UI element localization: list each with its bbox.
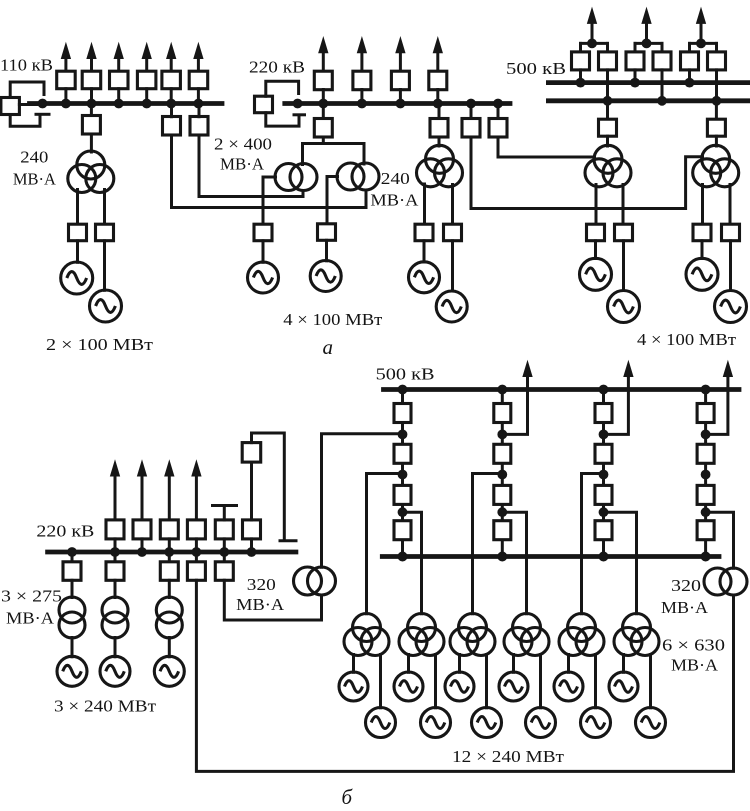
node chain 1 n3: [398, 507, 408, 517]
breaker tie 220-500 no1: [462, 119, 480, 138]
breaker 500 bay 1 upper-bus side: [572, 52, 590, 70]
svg-text:МВ·А: МВ·А: [370, 191, 419, 210]
breaker AT 220b-side: [215, 562, 233, 581]
generator G1: [61, 262, 93, 294]
breaker 500 bay 1 lower-bus side: [599, 52, 617, 70]
wire 220 bus to tie breaker no2: [497, 104, 500, 119]
wire transformer to generator: [114, 638, 117, 657]
breaker T2 220-side: [430, 119, 448, 138]
transformer (two-winding 275 MVA): [156, 597, 182, 638]
breaker T4 500-side: [707, 119, 725, 136]
wire lower bus to breaker T3: [606, 101, 609, 120]
wire 220 bay 4 to bus: [436, 90, 439, 104]
generator G-b5b: [581, 708, 611, 738]
node upper bus bay 2: [630, 78, 640, 88]
wire T-b5 to lower generator: [594, 655, 597, 708]
svg-text:6 × 630: 6 × 630: [662, 636, 725, 655]
breaker generator T4a: [693, 224, 711, 241]
outgoing line arrow 500b-1: [523, 362, 532, 377]
svg-text:110 кВ: 110 кВ: [0, 56, 53, 75]
generator G-b3a: [445, 672, 474, 701]
wire AT header right: [323, 142, 364, 145]
wire breaker to generator G3: [262, 241, 265, 262]
breaker G3: [254, 224, 272, 241]
wire 500 bay 1 split bar: [581, 42, 608, 45]
outgoing line arrow 500b-2: [624, 362, 633, 377]
wire right breaker to lower bus bay 2: [661, 70, 664, 101]
generator G-b1b: [366, 708, 396, 738]
breaker 500 bay 3 upper-bus side: [681, 52, 699, 70]
autotransformer 320 MVA right: [704, 568, 747, 595]
wire T3 left winding to breaker: [595, 185, 598, 225]
wire tap A3 to line arrow: [604, 371, 629, 434]
wire tap C3 to T-b6: [604, 512, 637, 614]
node 220b bus: [137, 547, 147, 557]
svg-text:МВ·А: МВ·А: [6, 609, 55, 628]
wire 220 bypass loop bottom: [266, 113, 299, 126]
wire bay 6 to 110 bus: [197, 89, 200, 104]
wire bypass loop over: [252, 433, 285, 539]
wire T3 right winding to breaker: [622, 185, 625, 225]
220 bypass disconnector bar: [294, 113, 305, 116]
breaker 110kV bay 1: [57, 71, 75, 89]
wire 220 bus to breaker T2: [438, 104, 441, 119]
breaker G5: [415, 224, 433, 241]
svg-text:4 × 100 МВт: 4 × 100 МВт: [637, 330, 737, 349]
breaker tie long route: [187, 562, 205, 581]
bypass breaker on 220 kV bus: [255, 96, 273, 113]
wire breaker to generator G4: [325, 240, 328, 260]
svg-text:б: б: [342, 785, 354, 809]
wire 110 bus to breaker T1: [90, 104, 93, 116]
node 220b bus: [110, 547, 120, 557]
node 220b bus: [192, 547, 202, 557]
bus 500 kV upper: [548, 80, 750, 85]
generator G4: [310, 261, 341, 292]
wire 500 bay 2 split bar: [635, 42, 662, 45]
wire T-b6 to upper generator: [622, 655, 625, 673]
breaker generator T3a: [587, 224, 605, 241]
wire T1 left winding to breaker G1: [76, 190, 79, 225]
breaker above 220b bus: [106, 520, 124, 539]
wire bay 2 to 110 bus: [90, 89, 93, 104]
wire long tie route bottom: [196, 580, 733, 771]
wire 220b bus to tie breaker: [195, 552, 198, 561]
breaker chain 3.4: [595, 521, 612, 540]
wire T-b4 to lower generator: [539, 655, 542, 708]
svg-text:220 кВ: 220 кВ: [36, 522, 94, 541]
wire 220b bus to breaker: [71, 552, 74, 561]
node chain 1 bottom bus: [398, 552, 408, 562]
wire split to right breaker bay 2: [661, 43, 664, 52]
breaker above 220b bus: [215, 520, 233, 539]
node 110 bus bay 2: [87, 99, 97, 109]
wire 220 bay 1 to bus: [322, 90, 325, 104]
breaker 500 bay 2 lower-bus side: [653, 52, 671, 70]
node upper bus bay 3: [685, 78, 695, 88]
bypass disconnector bar: [36, 113, 49, 116]
breaker chain 4.3: [697, 485, 714, 504]
wire left breaker to upper bus bay 1: [579, 70, 582, 83]
generator G-b4b: [526, 708, 556, 738]
node upper bus bay 1: [576, 78, 586, 88]
wire T2 right winding to breaker G6: [451, 185, 454, 225]
breaker G2: [96, 224, 114, 241]
wire bay 5 to 110 bus: [170, 89, 173, 104]
generator G-b2b: [421, 708, 451, 738]
node chain 3 n2: [599, 470, 609, 480]
node bypass 220: [293, 99, 303, 109]
wire header to AT2: [363, 144, 366, 165]
outgoing line arrow 110kV bay 4: [142, 44, 151, 72]
generator 240 MW: [57, 656, 87, 686]
node chain 2 bottom bus: [497, 552, 507, 562]
transformer T-b5 (three-winding 630 MVA): [559, 614, 604, 656]
autotransformer AT2: [337, 163, 379, 190]
wire T-b5 to upper generator: [567, 655, 570, 673]
wire split to left breaker bay 3: [688, 43, 691, 52]
wire breaker to transformer T2: [438, 137, 441, 146]
wire breaker to 220b bus: [141, 539, 144, 552]
svg-text:МВ·А: МВ·А: [671, 656, 719, 675]
node chain 2 n3: [497, 507, 507, 517]
svg-text:2 × 400: 2 × 400: [214, 135, 272, 154]
wire breaker to generator G5: [423, 241, 426, 262]
generator G2: [90, 290, 122, 322]
wire bay 1 to 110 bus: [64, 89, 67, 104]
svg-text:а: а: [323, 335, 334, 359]
outgoing line arrow 110kV bay 2: [87, 44, 96, 72]
wire tie no1 to T4 (long route): [471, 137, 703, 209]
breaker chain 3.1: [595, 404, 612, 423]
wire T-b4 to upper generator: [512, 655, 515, 673]
wire split to left breaker bay 2: [634, 43, 637, 52]
wire 220 bypass loop top: [266, 81, 299, 96]
wire left breaker to upper bus bay 3: [688, 70, 691, 83]
breaker 220kV bay 4: [429, 71, 447, 90]
breaker chain 4.4: [697, 521, 714, 540]
svg-text:МВ·А: МВ·А: [13, 170, 57, 189]
breaker above 220b bus: [243, 520, 261, 539]
transformer T3 (three-winding): [585, 145, 631, 187]
node 220 bus bay 1: [318, 99, 328, 109]
wire bay 4 to 110 bus: [145, 89, 148, 104]
wire tie no2 to T3: [498, 137, 595, 157]
wire 110 bus to tie breaker bay5: [170, 104, 173, 117]
wire T2 left winding to breaker G5: [423, 184, 426, 225]
wire T-b3 to upper generator: [458, 655, 461, 673]
outgoing line arrow 220b: [138, 461, 147, 520]
breaker 110kV bay 5: [162, 71, 181, 89]
generator G5: [409, 262, 440, 293]
node lower bus bay 1: [603, 96, 613, 106]
breaker 110kV bay 6: [189, 71, 208, 89]
wire breaker to 220b bus: [168, 539, 171, 552]
wire 220 bus to AT breaker: [322, 104, 325, 119]
svg-text:12 × 240 МВт: 12 × 240 МВт: [452, 747, 565, 766]
breaker T1 110-side: [82, 116, 100, 135]
breaker above 220b bus: [133, 520, 151, 539]
breaker above 220b bus: [160, 520, 178, 539]
node 110 bus bay 4: [142, 99, 152, 109]
node chain 4 n2: [701, 470, 711, 480]
wire header to AT1: [301, 144, 304, 165]
outgoing line arrow 220kV bay 4: [433, 38, 442, 72]
node chain 4 n3: [701, 507, 711, 517]
breaker 110kV bay 2: [82, 71, 101, 89]
node chain 2 top bus: [497, 385, 507, 395]
breaker chain 2.1: [494, 404, 511, 423]
outgoing line arrow 110kV bay 5: [167, 44, 176, 72]
wire chain 1: [401, 390, 404, 557]
wire T-b2 to upper generator: [407, 655, 410, 673]
bypass second breaker 220b: [242, 443, 261, 463]
svg-text:3 × 275: 3 × 275: [1, 587, 62, 606]
wire bay 3 to 110 bus: [117, 89, 120, 104]
wire breaker to transformer: [71, 580, 74, 597]
wire right breaker to lower bus bay 3: [715, 70, 718, 101]
outgoing line arrow 110kV bay 3: [114, 44, 123, 72]
wire tap C4 to AT right: [706, 512, 734, 568]
node 110 bus bay 5: [166, 99, 176, 109]
outgoing line arrow 220b: [192, 461, 201, 520]
transformer T-b2 (three-winding 630 MVA): [399, 614, 444, 656]
outgoing line arrow 500kV bay 3: [697, 8, 706, 43]
svg-text:4 × 100 МВт: 4 × 100 МВт: [283, 310, 383, 329]
node 220 bus bay 3: [396, 99, 406, 109]
outgoing line arrow 220kV bay 2: [357, 38, 366, 72]
generator G-b3b: [472, 708, 502, 738]
outgoing line arrow 110kV bay 6: [194, 44, 203, 72]
wire breaker to generator T3b: [622, 241, 625, 291]
wire breaker to generator G1: [76, 241, 79, 262]
wire right breaker to lower bus bay 1: [606, 70, 609, 101]
wire left breaker to upper bus bay 2: [634, 70, 637, 83]
transformer T-b3 (three-winding 630 MVA): [450, 614, 495, 656]
node 110 bus bay 6: [194, 99, 204, 109]
breaker generator T3b: [615, 224, 633, 241]
wire T4 left winding to breaker: [701, 185, 704, 225]
node chain 4 top bus: [701, 385, 711, 395]
wire breaker to 220b bus: [114, 539, 117, 552]
wire tap B2 to T-b3: [473, 474, 503, 614]
generator G6: [436, 291, 467, 322]
wire bar to breaker: [223, 506, 226, 521]
svg-text:500 кВ: 500 кВ: [376, 365, 435, 384]
wire chain 4: [704, 390, 707, 557]
wire tap C1 to T-b2: [403, 512, 422, 614]
transformer (two-winding 275 MVA): [102, 597, 128, 638]
node 220 bus bay 2: [357, 99, 367, 109]
breaker tie 220-500 no2: [489, 119, 507, 138]
svg-text:320: 320: [671, 576, 701, 595]
wire AT2 tap to breaker G4: [327, 177, 338, 225]
autotransformer 320 MVA left: [294, 567, 336, 595]
generator T3b: [608, 291, 640, 323]
transformer T-b4 (three-winding 630 MVA): [504, 614, 549, 656]
breaker 110kV bay 4: [137, 71, 156, 89]
generator T3a: [580, 258, 612, 290]
wire bypass breaker to bus: [19, 103, 42, 106]
wire transformer to generator: [71, 638, 74, 657]
wire breaker to transformer T3: [606, 136, 609, 146]
node 500 bay 1 split: [587, 39, 597, 49]
bus 500 kV-1 (scheme b): [384, 387, 740, 392]
svg-text:320: 320: [247, 575, 276, 594]
breaker chain 1.1: [394, 404, 411, 423]
node 220 tie no2: [493, 99, 503, 109]
breaker 220kV bay 3: [391, 71, 409, 90]
wire chain 3: [602, 390, 605, 557]
wire 110 bus to tie breaker bay6: [198, 104, 201, 117]
breaker generator T4b: [722, 224, 740, 241]
wire tap A2 to line arrow: [502, 371, 527, 434]
generator G3: [248, 262, 279, 293]
svg-text:220 кВ: 220 кВ: [249, 58, 305, 77]
node chain 3 n3: [599, 507, 609, 517]
wire 220b bus to breaker: [168, 552, 171, 561]
node chain 4 n1: [701, 430, 711, 440]
node chain 1 n2: [398, 470, 408, 480]
generator T4a: [686, 258, 718, 290]
outgoing line arrow 500kV bay 2: [642, 8, 651, 43]
node 110 bus bay 1: [61, 99, 71, 109]
generator G-b5a: [554, 672, 583, 701]
svg-text:МВ·А: МВ·А: [236, 595, 285, 614]
breaker chain 2.3: [494, 485, 511, 504]
wire lower bus to breaker T4: [715, 101, 718, 120]
wire breaker to transformer T1: [90, 134, 93, 152]
node 220 bus bay 4: [433, 99, 443, 109]
generator G-b4a: [499, 672, 528, 701]
breaker AT tie 110 bay6: [190, 117, 208, 136]
bus 110 kV: [30, 101, 223, 106]
transformer T2 (three-winding): [417, 145, 463, 187]
breaker above 220b bus: [187, 520, 205, 539]
outgoing line arrow 220b: [165, 461, 174, 520]
outgoing line arrow 220kV bay 3: [396, 38, 405, 72]
generator G-b6a: [609, 672, 638, 701]
node 220b bus: [247, 547, 257, 557]
wire split to right breaker bay 1: [606, 43, 609, 52]
outgoing line arrow 500b-3: [723, 362, 732, 377]
breaker G1: [69, 224, 87, 241]
node chain 1 n1: [398, 430, 408, 440]
wire T-b1 to upper generator: [352, 655, 355, 673]
generator G-b1a: [339, 672, 368, 701]
wire breaker to generator G2: [103, 241, 106, 290]
node 220b bus: [164, 547, 174, 557]
node chain 3 n1: [599, 430, 609, 440]
wire split to right breaker bay 3: [715, 43, 718, 52]
svg-text:МВ·А: МВ·А: [220, 155, 265, 174]
breaker 220kV bay 2: [353, 71, 371, 90]
node chain 1 top bus: [398, 385, 408, 395]
bus 220 kV (scheme b): [48, 550, 296, 555]
generator T4b: [715, 291, 747, 323]
breaker G4: [318, 224, 336, 241]
wire transformer to generator: [168, 638, 171, 657]
node lower bus bay 2: [657, 96, 667, 106]
wire T4 right winding to breaker: [729, 185, 732, 225]
wire tap B1 to T-b1: [367, 474, 403, 614]
transformer T1 (three-winding 240 MVA): [68, 151, 114, 193]
breaker 500 bay 3 lower-bus side: [708, 52, 726, 70]
transformer (two-winding 275 MVA): [59, 597, 85, 638]
wire AT1 tap to breaker G3: [263, 177, 276, 225]
wire breaker to 220b bus: [250, 539, 253, 552]
node 220b bus: [219, 547, 229, 557]
wire T1 right winding to breaker G2: [103, 190, 106, 225]
wire T-b6 to lower generator: [649, 655, 652, 708]
svg-text:МВ·А: МВ·А: [661, 598, 709, 617]
wire 220b bus to breaker: [114, 552, 117, 561]
wire 220 bay 3 to bus: [399, 90, 402, 104]
transformer T-b6 (three-winding 630 MVA): [614, 614, 659, 656]
breaker G6: [444, 224, 462, 241]
wire breaker to generator T3a: [594, 241, 597, 259]
generator 240 MW: [154, 656, 184, 686]
bus 500 kV-2 (scheme b): [382, 554, 719, 559]
breaker T3 500-side: [599, 119, 617, 136]
outgoing line arrow 220kV bay 1: [319, 38, 328, 72]
node chain 2 n2: [497, 470, 507, 480]
generator G-b2a: [394, 672, 423, 701]
wire bypass loop bottom: [10, 115, 40, 127]
wire split to left breaker bay 1: [579, 43, 582, 52]
svg-text:240: 240: [381, 169, 410, 188]
breaker 500 bay 2 upper-bus side: [626, 52, 644, 70]
breaker chain 4.2: [697, 444, 714, 463]
wire tie bay5 to AT2 (110 side): [172, 135, 367, 208]
outgoing line arrow 500kV bay 1: [588, 8, 597, 43]
wire 220 bus to tie breaker no1: [470, 104, 473, 119]
wire breaker to generator T4a: [701, 241, 704, 259]
node 500 bay 2 split: [642, 39, 652, 49]
breaker chain 1.4: [394, 521, 411, 540]
bypass disconnector bar 220b: [280, 539, 296, 542]
line stub bar 220b: [213, 504, 237, 507]
breaker 110kV bay 3: [110, 71, 129, 89]
breaker transformer 220b: [160, 562, 178, 581]
wire breaker to generator G6: [451, 241, 454, 291]
svg-text:240: 240: [20, 148, 48, 167]
wire tie bay6 to AT1 (110 side): [199, 135, 303, 197]
breaker AT 220-side: [314, 119, 332, 138]
wire tap B3 to T-b5: [582, 474, 604, 614]
transformer T4 (three-winding): [693, 145, 739, 187]
autotransformer AT1 (2x400 MVA): [275, 164, 317, 191]
wire bypass breaker chain: [250, 463, 253, 520]
wire T-b1 to lower generator: [379, 655, 382, 708]
wire chain 2: [501, 390, 504, 557]
wire 500 bay 3 split bar: [690, 42, 717, 45]
wire breaker to transformer: [114, 580, 117, 597]
node bypass 110: [38, 99, 48, 109]
breaker transformer 220b: [106, 562, 124, 581]
node 220b bus: [67, 547, 77, 557]
node lower bus bay 3: [712, 96, 722, 106]
breaker chain 3.3: [595, 485, 612, 504]
bus 500 kV lower: [548, 98, 750, 103]
wire breaker to transformer: [168, 580, 171, 597]
wire tap A4 to line arrow: [706, 371, 728, 434]
svg-text:500 кВ: 500 кВ: [506, 59, 566, 78]
wire T-b2 to lower generator: [434, 655, 437, 708]
wire tap C2 to T-b4: [502, 512, 526, 614]
wire AT left to chain1 tap: [322, 434, 403, 567]
breaker chain 3.2: [595, 444, 612, 463]
